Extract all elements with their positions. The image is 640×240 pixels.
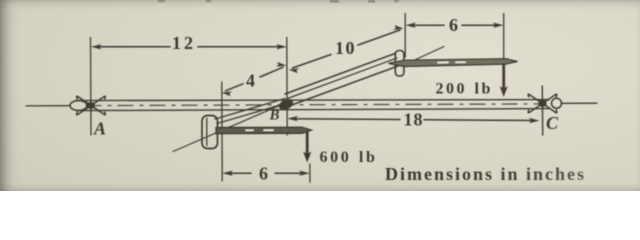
upper crank bar inner line	[288, 58, 398, 99]
shaft AC : top edge	[76, 100, 549, 101]
extension line bottom 6 right	[309, 164, 311, 182]
dimension 6 top : extension line left (down to elbow)	[404, 14, 406, 58]
dimension 10 : slanted line	[293, 55, 332, 69]
dimension 10 : left arrow	[289, 68, 300, 73]
lower crank bracket inner wall	[206, 119, 208, 146]
force arrow 200 lb	[502, 64, 505, 89]
svg-text:Dimensions in inches: Dimensions in inches	[385, 164, 586, 184]
dimension 6 bottom : line	[226, 172, 251, 174]
shaft AC : centre line solid stub right of C	[562, 102, 597, 104]
bearing A : journal rays with hooks	[77, 96, 106, 114]
lower crank bar edge 1	[215, 99, 285, 120]
dimension 4 : right arrow	[276, 62, 287, 67]
dimension 18 : line	[290, 118, 400, 121]
svg-text:4: 4	[246, 71, 255, 91]
extension line through A (left end of 12 dim)	[90, 38, 93, 136]
svg-text:12: 12	[172, 33, 196, 53]
upper crank bar top edge	[285, 54, 395, 95]
extension line through B (12/18 dims)	[286, 38, 288, 136]
lower crank axis line (thin, through bracket to B)	[173, 101, 290, 152]
dimension 6 top : line	[409, 24, 444, 26]
bearing C : hub blob	[538, 100, 546, 107]
shaft right end knob circle	[552, 98, 562, 108]
shaft AC : left end cap ellipse	[70, 101, 87, 111]
upper handle rod (gray spindle)	[389, 59, 518, 67]
dimension 6 top : right arrow	[493, 23, 504, 28]
upper crank bar bottom edge	[291, 66, 399, 106]
upper crank axis extension line past elbow	[406, 47, 444, 65]
junction blob at B	[277, 97, 295, 112]
dimension 18 : left arrow	[288, 116, 299, 121]
shaft AC : centre dash-dot line	[86, 104, 540, 106]
shaft AC : centre line solid stub left of A	[26, 105, 70, 107]
lower crank bar edge 2	[217, 103, 287, 124]
svg-text:C: C	[546, 113, 559, 133]
bearing C : journal rays with hooks	[528, 94, 557, 112]
svg-text:600 lb: 600 lb	[320, 149, 378, 166]
dimension 6 top : extension line right (down to handle)	[503, 14, 505, 61]
dimension 4 : slanted line	[226, 84, 244, 91]
svg-text:200 lb: 200 lb	[436, 81, 493, 98]
lower crank bracket (boss)	[202, 116, 218, 149]
svg-text:6: 6	[259, 164, 268, 184]
dimension 12 : left arrow	[91, 44, 102, 49]
shaft AC : bottom edge	[76, 109, 549, 111]
top edge cropped-text specks	[158, 0, 399, 3]
dimension 12 : right arrow	[276, 44, 287, 49]
extension line through lower crank (4 dim left / bottom 6 left)	[221, 82, 223, 181]
lower handle rod (dark spindle)	[216, 127, 312, 133]
dimension 4 : left arrow	[222, 91, 233, 96]
dimension 18 : right arrow	[529, 118, 540, 123]
svg-text:B: B	[269, 108, 280, 124]
dimension 6 bottom : right arrow	[299, 171, 310, 176]
dimension 6 bottom : left arrow	[222, 171, 233, 176]
svg-text:A: A	[93, 119, 106, 139]
bearing A : hub blob	[87, 102, 95, 109]
svg-text:18: 18	[404, 110, 424, 130]
dimension 10 : right arrow	[393, 25, 404, 30]
dimension 12 : line	[95, 46, 170, 48]
dimension 6 top : left arrow	[405, 23, 416, 28]
svg-text:10: 10	[335, 38, 356, 58]
photo grain overlay	[0, 0, 640, 191]
upper crank elbow cap	[395, 51, 404, 77]
bearing C : extension line	[541, 86, 543, 135]
force arrow 600 lb	[306, 133, 309, 154]
svg-text:6: 6	[449, 15, 458, 35]
